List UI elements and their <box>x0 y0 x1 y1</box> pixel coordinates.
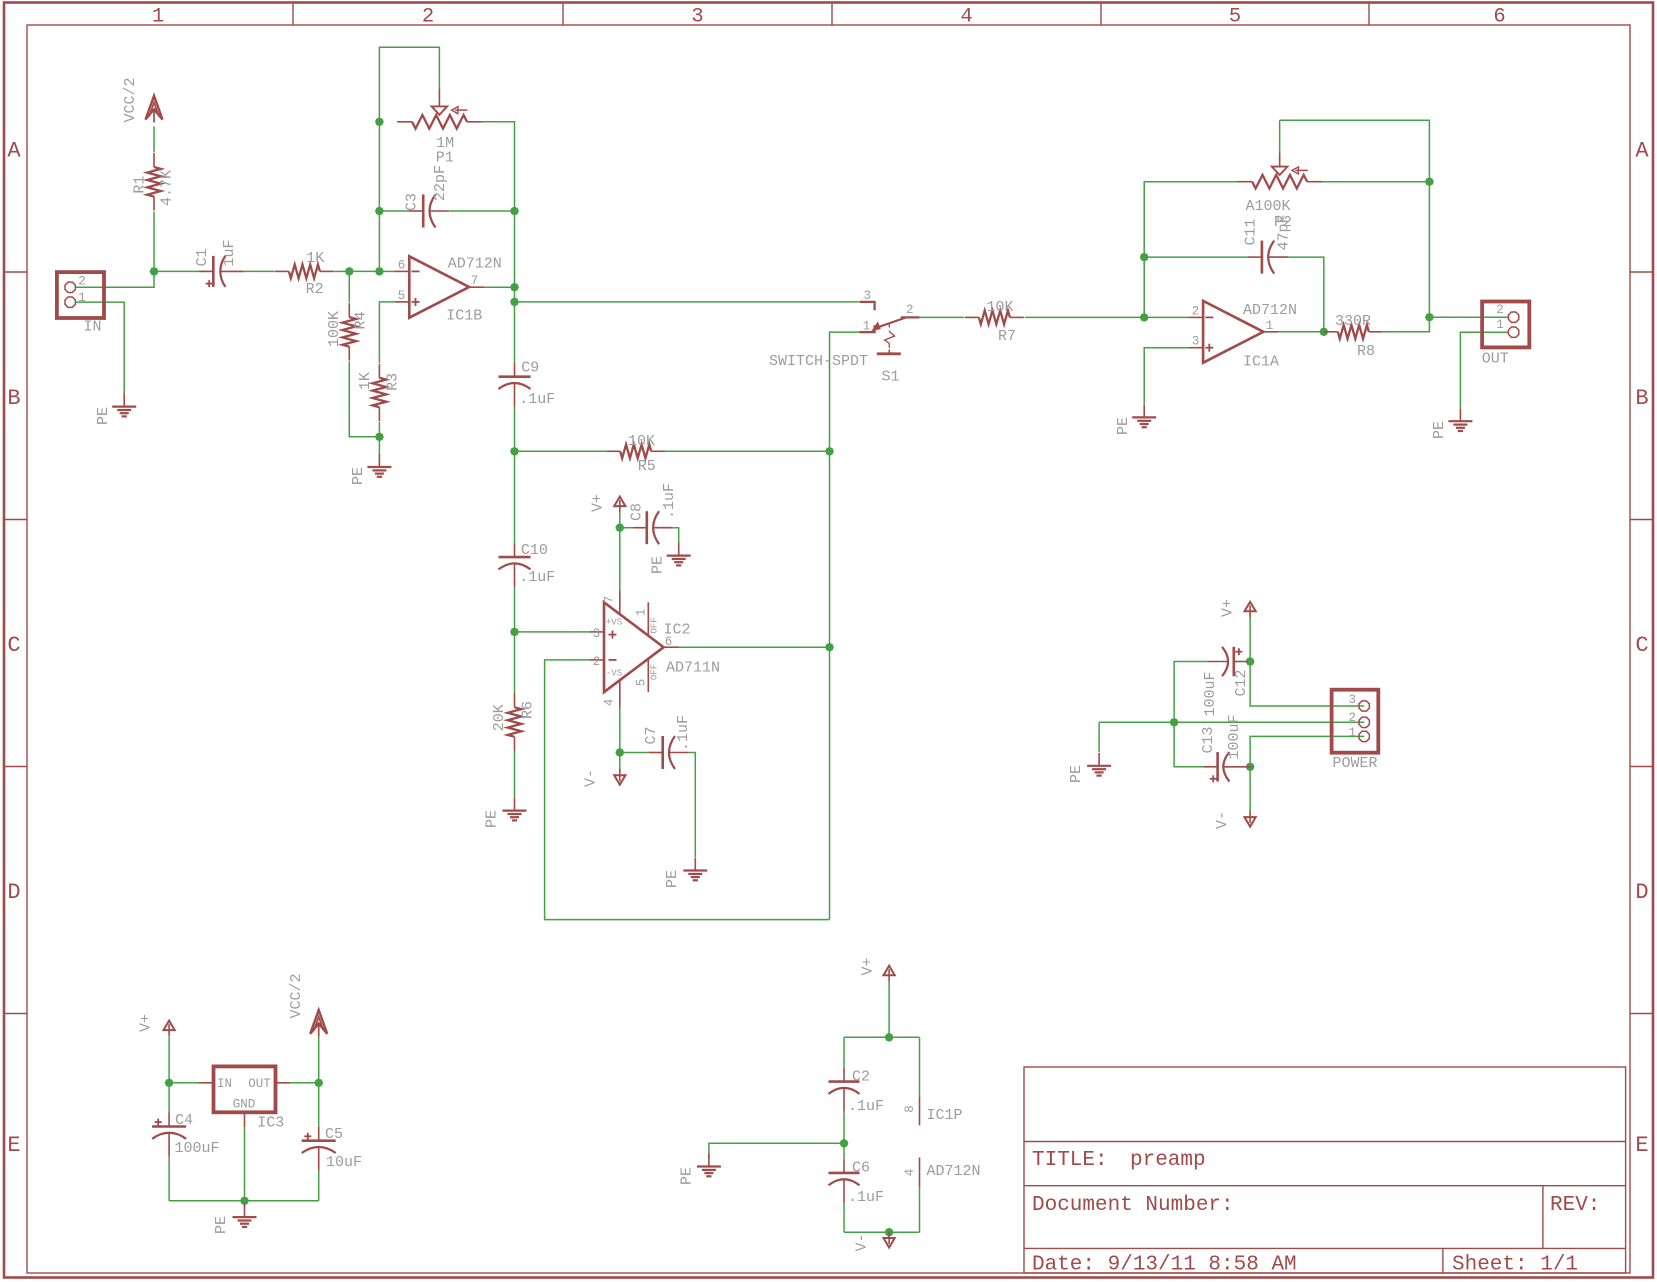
svg-text:3: 3 <box>1348 693 1356 707</box>
svg-text:IC1A: IC1A <box>1243 354 1279 371</box>
wire IC1B output to node <box>484 286 514 288</box>
switch S1 lever arrow <box>873 323 880 331</box>
supply V- at IC1P <box>884 1238 895 1248</box>
svg-text:1: 1 <box>1348 726 1356 740</box>
IC1P pin 8 <box>919 1097 921 1125</box>
svg-text:47pF: 47pF <box>1276 214 1293 250</box>
svg-text:IC2: IC2 <box>663 622 690 639</box>
trimmer P1 wiper stub <box>438 88 440 106</box>
svg-text:1K: 1K <box>357 372 374 390</box>
wire IC2 pin2 loop <box>545 660 830 920</box>
svg-text:10K: 10K <box>986 299 1013 316</box>
wire switch pin1 down right column <box>830 332 860 451</box>
wire C6 to bottom rail <box>843 1203 845 1232</box>
wire V+ to C12 node <box>1249 618 1251 662</box>
svg-text:GND: GND <box>233 1098 256 1112</box>
connector OUT pad 1 <box>1508 327 1518 337</box>
wire V- node to C7 <box>620 752 649 754</box>
svg-text:.1uF: .1uF <box>675 715 692 751</box>
supply V+ at IC2 <box>614 497 625 507</box>
capacitor C3 <box>409 210 423 212</box>
ground PE at R3 <box>378 454 380 467</box>
IC3 pin IN stub <box>199 1082 214 1084</box>
svg-text:SWITCH-SPDT: SWITCH-SPDT <box>769 353 868 370</box>
junction IN node <box>150 267 159 276</box>
trimmer P1 arrow <box>455 109 467 111</box>
svg-text:100K: 100K <box>326 311 343 347</box>
op-amp IC1A plus <box>1205 347 1213 349</box>
wire IC3 node to IC3 IN <box>169 1082 199 1084</box>
wire P1 node up and over to wiper column <box>379 47 439 122</box>
wire out node to OUT pin2 <box>1429 316 1508 318</box>
wire C8 node to C8 <box>620 527 633 529</box>
connector OUT pad 2 <box>1508 312 1518 322</box>
wire node C up to C3 node <box>378 211 380 271</box>
op-amp IC2 off pin5 <box>647 659 649 692</box>
svg-text:PE: PE <box>1431 421 1448 439</box>
svg-text:OFF: OFF <box>650 664 660 680</box>
wire R1 bottom to node A <box>153 212 155 272</box>
wire IC2 pin4 to V- node <box>619 708 621 753</box>
svg-text:R2: R2 <box>306 281 324 298</box>
wire C3 right lead to right column <box>450 210 515 212</box>
svg-text:V-: V- <box>583 769 600 787</box>
supply V+ at IC3 <box>164 1021 175 1031</box>
connector POWER pad 2 <box>1359 717 1369 727</box>
capacitor C4 <box>168 1113 170 1127</box>
svg-text:Sheet: 1/1: Sheet: 1/1 <box>1452 1254 1578 1277</box>
wire bottom rail to V- <box>888 1232 890 1237</box>
op-amp IC1A pin3 stub <box>1188 347 1203 349</box>
capacitor C1 <box>199 270 213 272</box>
svg-text:OUT: OUT <box>1482 351 1509 368</box>
svg-text:V+: V+ <box>590 494 607 512</box>
svg-text:PE: PE <box>679 1167 696 1185</box>
wire pin3 node down to R6 <box>514 632 516 694</box>
svg-text:PE: PE <box>350 467 367 485</box>
svg-text:C: C <box>7 633 20 658</box>
switch S1 pin2 <box>901 316 920 318</box>
svg-text:6: 6 <box>398 258 406 272</box>
svg-text:-VS: -VS <box>606 669 622 679</box>
svg-text:PE: PE <box>1115 417 1132 435</box>
wire node A to C1 <box>154 270 206 272</box>
wire PE drop <box>1098 722 1100 752</box>
wire IC1B pin5 to R3 column <box>379 302 394 363</box>
wire C3 left node lead <box>379 210 409 212</box>
wire R3 bottom to node D <box>378 422 380 437</box>
wire R5 to right node <box>665 450 829 452</box>
junction C12 <box>1246 657 1255 666</box>
svg-text:20K: 20K <box>491 704 508 731</box>
wire node C to IC1B pin6 <box>379 270 394 272</box>
junction OUT node <box>1425 313 1434 322</box>
svg-text:V-: V- <box>854 1233 871 1251</box>
wire right column C3 to IC1B out node <box>514 211 516 287</box>
wire R5 node down to C10 <box>514 451 516 543</box>
svg-text:C8: C8 <box>628 503 645 521</box>
resistor R6 <box>514 693 516 707</box>
svg-text:4: 4 <box>960 6 972 29</box>
svg-text:2: 2 <box>906 303 914 317</box>
capacitor C5 <box>318 1127 320 1141</box>
supply VCC/2 arrow <box>146 96 163 120</box>
svg-text:preamp: preamp <box>1130 1149 1206 1172</box>
connector OUT box <box>1482 302 1529 348</box>
wire IC1P bottom rail <box>844 1231 920 1233</box>
svg-text:REV:: REV: <box>1550 1194 1600 1217</box>
wire C12 left to mid column <box>1174 662 1208 723</box>
svg-text:P1: P1 <box>436 150 454 167</box>
svg-text:PE: PE <box>664 870 681 888</box>
junction IC1P V+ <box>885 1033 894 1042</box>
supply VCC/2 at IC3 <box>310 1010 327 1034</box>
supply V- at POWER <box>1245 817 1256 827</box>
svg-text:VCC/2: VCC/2 <box>122 77 139 122</box>
wire node B down to R4 <box>348 271 350 302</box>
svg-text:PE: PE <box>1068 765 1085 783</box>
junction R3/R4 gnd <box>375 432 384 441</box>
wire IN pin1 to ground <box>75 302 124 397</box>
wire C12 node to POWER pin3 <box>1250 662 1364 707</box>
svg-text:R1: R1 <box>132 176 149 194</box>
svg-text:PE: PE <box>95 407 112 425</box>
svg-text:3: 3 <box>593 627 601 641</box>
IC3 pin OUT stub <box>276 1082 291 1084</box>
supply V+ at IC1P <box>884 966 895 976</box>
svg-text:V+: V+ <box>860 957 877 975</box>
trimmer P1 wiper <box>432 106 448 114</box>
resistor R4 <box>348 303 350 317</box>
op-amp IC1B plus <box>412 301 420 303</box>
junction C11 tap <box>1140 253 1149 262</box>
wire P1 right lead to right column <box>482 122 514 211</box>
wire IC1P top rail <box>844 1036 920 1038</box>
wire VCC node down to C5 <box>318 1083 320 1127</box>
svg-text:IC1B: IC1B <box>446 307 482 324</box>
svg-text:PE: PE <box>484 810 501 828</box>
wire pin2 node up to C11 node <box>1143 257 1145 317</box>
svg-text:1: 1 <box>152 6 164 29</box>
svg-text:AD712N: AD712N <box>1243 302 1297 319</box>
wire top rail to pin8 <box>919 1037 921 1097</box>
frame row ticks <box>4 271 27 273</box>
wire IC3 node down to C4 <box>168 1083 170 1113</box>
svg-text:POWER: POWER <box>1332 755 1377 772</box>
svg-text:4: 4 <box>903 1169 917 1177</box>
svg-text:100uF: 100uF <box>174 1140 219 1157</box>
svg-text:VCC/2: VCC/2 <box>288 973 305 1018</box>
svg-text:C13: C13 <box>1200 726 1217 753</box>
svg-text:+VS: +VS <box>606 618 622 628</box>
wire IC1A output to R8 node <box>1278 331 1323 333</box>
trimmer P1 <box>397 121 412 123</box>
wire node B to node C <box>349 270 379 272</box>
svg-text:1K: 1K <box>306 250 324 267</box>
wire top rail to C2 <box>843 1037 845 1067</box>
junction power mid <box>1170 718 1179 727</box>
op-amp IC1B pin5 stub <box>395 301 410 303</box>
svg-text:Date: 9/13/11 8:58 AM: Date: 9/13/11 8:58 AM <box>1032 1254 1297 1277</box>
IC1P pin 4 <box>919 1158 921 1188</box>
junction C13 <box>1246 762 1255 771</box>
svg-text:1: 1 <box>1266 319 1274 333</box>
op-amp IC1A output stub <box>1263 331 1278 333</box>
junction IC1A pin2 <box>1140 313 1149 322</box>
op-amp IC1A minus <box>1205 316 1213 318</box>
capacitor C7 <box>649 752 663 754</box>
svg-text:2: 2 <box>422 6 434 29</box>
svg-text:R6: R6 <box>520 701 537 719</box>
wire R8 to out column <box>1383 317 1430 332</box>
capacitor C8 <box>633 527 647 529</box>
wire VCC/2 to VCC node <box>318 1037 320 1083</box>
svg-text:C3: C3 <box>404 193 421 211</box>
wire mid node to PE <box>709 1143 844 1158</box>
svg-text:3: 3 <box>691 6 703 29</box>
capacitor C10 <box>514 543 516 557</box>
ground PE at IC1A <box>1143 404 1145 417</box>
ground PE at IC1P <box>708 1154 710 1167</box>
wire bottom rail to ground <box>244 1201 246 1209</box>
connector IN pad 2 <box>65 282 75 292</box>
svg-text:2: 2 <box>1496 303 1504 317</box>
switch S1 pin3 <box>860 302 875 310</box>
wire P2 right lead to out column <box>1322 181 1429 183</box>
op-amp IC2 pin7 <box>619 590 621 614</box>
op-amp IC2 pin4 <box>619 680 621 707</box>
wire C10 to pin3 node <box>514 587 516 632</box>
svg-text:.1uF: .1uF <box>661 483 678 519</box>
op-amp IC1B <box>409 256 469 317</box>
wire VCC/2 to R1 top <box>153 127 155 153</box>
svg-text:C10: C10 <box>521 542 548 559</box>
svg-text:6: 6 <box>1493 6 1505 29</box>
svg-text:C1: C1 <box>194 248 211 266</box>
ground PE at IC3 <box>244 1204 246 1217</box>
wire C9 to R5 node <box>514 407 516 452</box>
capacitor C2 <box>843 1068 845 1082</box>
junction C3 left <box>375 207 384 216</box>
junction C7/V- <box>615 748 624 757</box>
svg-text:4: 4 <box>603 699 617 707</box>
wire C4 to bottom wire <box>168 1157 170 1201</box>
trimmer P2 wiper stub <box>1279 153 1281 167</box>
svg-text:V+: V+ <box>138 1014 155 1032</box>
svg-text:.1uF: .1uF <box>848 1189 884 1206</box>
svg-text:R8: R8 <box>1357 343 1375 360</box>
svg-text:Document Number:: Document Number: <box>1032 1194 1234 1217</box>
resistor R5 <box>606 450 620 452</box>
svg-text:8: 8 <box>903 1105 917 1113</box>
svg-text:A: A <box>1635 139 1649 164</box>
resistor R2 <box>275 270 289 272</box>
svg-text:5: 5 <box>398 289 406 303</box>
trimmer P2 wiper <box>1272 167 1288 175</box>
svg-text:100uF: 100uF <box>1226 714 1243 759</box>
svg-text:.1uF: .1uF <box>519 391 555 408</box>
wire C11 node up to P2 row <box>1144 182 1237 257</box>
wire IN pin2 to C1 node <box>75 271 154 287</box>
svg-text:S1: S1 <box>881 369 899 386</box>
junction IC3 in <box>165 1078 174 1087</box>
svg-text:IN: IN <box>83 319 101 336</box>
wire V- node down to V- <box>619 753 621 771</box>
wire C7 to ground drop <box>689 753 696 858</box>
resistor R3 <box>378 364 380 378</box>
svg-text:7: 7 <box>471 274 479 288</box>
svg-text:TITLE:: TITLE: <box>1032 1149 1108 1172</box>
capacitor C6 <box>843 1159 845 1173</box>
junction IC2 out <box>825 643 834 652</box>
switch S1 lever <box>877 318 906 328</box>
wire IC3 GND down <box>244 1127 246 1201</box>
junction pin5 row <box>510 298 519 307</box>
junction R8 left <box>1319 327 1328 336</box>
wire P2 wiper loop <box>1279 120 1281 152</box>
wire right column R5 to IC2 out <box>829 451 831 647</box>
svg-text:R7: R7 <box>998 328 1016 345</box>
junction P2 top <box>1425 177 1434 186</box>
svg-text:E: E <box>1635 1133 1648 1158</box>
supply V+ at POWER <box>1245 602 1256 612</box>
connector IN box <box>57 272 104 318</box>
wire C8 to ground drop <box>673 528 679 543</box>
op-amp IC1A <box>1203 301 1263 363</box>
wire C8 node down to IC2 pin7 <box>619 528 621 591</box>
wire out node down to pin5row node <box>514 287 516 302</box>
svg-text:10uF: 10uF <box>326 1154 362 1171</box>
svg-text:D: D <box>7 880 20 905</box>
svg-text:22pF: 22pF <box>432 165 449 201</box>
wire mid node to C6 <box>843 1143 845 1159</box>
svg-text:3: 3 <box>1192 335 1200 349</box>
op-amp IC1B pin6 stub <box>394 270 409 272</box>
svg-text:D: D <box>1635 880 1648 905</box>
svg-text:R5: R5 <box>638 458 656 475</box>
svg-text:2: 2 <box>593 655 601 669</box>
svg-text:V+: V+ <box>1220 599 1237 617</box>
wire C11 right to drop column <box>1288 257 1324 332</box>
junction IC1P V- <box>885 1228 894 1237</box>
connector POWER pad 3 <box>1359 701 1369 711</box>
connector POWER pad 1 <box>1359 731 1369 741</box>
wire bottom rail <box>169 1200 319 1202</box>
junction R5 left <box>510 447 519 456</box>
op-amp IC2 off pin1 <box>647 602 649 635</box>
junction R5 right <box>825 447 834 456</box>
ground PE at POWER <box>1098 753 1100 766</box>
junction C3 right <box>510 207 519 216</box>
op-amp IC2 plus <box>609 634 617 636</box>
svg-text:C2: C2 <box>852 1069 870 1086</box>
svg-text:R3: R3 <box>385 373 402 391</box>
svg-text:1: 1 <box>78 291 86 305</box>
svg-text:C7: C7 <box>643 726 660 744</box>
wire R2 to node B <box>334 270 349 272</box>
resistor R8 <box>1324 331 1338 333</box>
ground PE at IN <box>123 394 125 407</box>
junction P1 left <box>375 117 384 126</box>
svg-text:B: B <box>1635 386 1648 411</box>
svg-text:1uF: 1uF <box>221 239 238 266</box>
title block box <box>1024 1067 1626 1273</box>
svg-text:AD711N: AD711N <box>666 660 720 677</box>
svg-text:5: 5 <box>1229 6 1241 29</box>
trimmer P2 arrow <box>1296 169 1308 171</box>
svg-text:330R: 330R <box>1335 313 1371 330</box>
svg-text:E: E <box>7 1133 20 1158</box>
svg-text:2: 2 <box>1348 711 1356 725</box>
svg-text:1: 1 <box>1496 318 1504 332</box>
wire C11 node to C11 <box>1144 256 1248 258</box>
wire pin5row node to switch pin3 <box>515 301 860 303</box>
junction IC3 gnd <box>240 1196 249 1205</box>
wire C3 node up to P1 node <box>378 122 380 211</box>
svg-text:7: 7 <box>603 596 617 604</box>
wire IC1P V+ down <box>888 982 890 1038</box>
wire mid node down to C13 <box>1174 722 1208 767</box>
svg-text:C11: C11 <box>1243 218 1260 245</box>
wire node D to ground <box>378 437 380 454</box>
trimmer P2 <box>1237 181 1252 183</box>
switch S1 pin1 <box>859 325 874 332</box>
wire IC1A pin3 to ground <box>1144 348 1188 404</box>
svg-text:C9: C9 <box>521 359 539 376</box>
wire pin4 to bottom rail <box>919 1187 921 1232</box>
wire R5 node to R5 <box>515 450 607 452</box>
svg-text:A100K: A100K <box>1245 198 1290 215</box>
connector IN pad 1 <box>65 297 75 307</box>
wire PE to mid node <box>1099 721 1174 723</box>
svg-text:R4: R4 <box>353 311 370 329</box>
svg-text:5: 5 <box>635 679 649 687</box>
svg-text:A: A <box>7 139 21 164</box>
wire pin2 node to IC1A pin2 <box>1144 316 1188 318</box>
svg-text:.1uF: .1uF <box>848 1098 884 1115</box>
svg-text:OUT: OUT <box>248 1077 271 1091</box>
op-amp IC2 <box>604 602 664 692</box>
op-amp IC1B minus <box>412 270 420 272</box>
ground PE at C8 <box>678 543 680 556</box>
junction C8/V+ <box>615 523 624 532</box>
wire pin5row node down to C9 <box>514 302 516 363</box>
connector POWER box <box>1332 690 1379 753</box>
supply V- at IC2 <box>614 775 625 785</box>
svg-text:3: 3 <box>863 289 871 303</box>
svg-text:.1uF: .1uF <box>519 569 555 586</box>
svg-text:B: B <box>7 386 20 411</box>
ground PE at R6 <box>514 798 516 811</box>
svg-text:2: 2 <box>78 274 86 288</box>
switch S1 actuator <box>888 324 890 332</box>
op-amp IC2 pin2 stub <box>590 659 604 661</box>
frame column ticks top <box>292 3 294 26</box>
wire pin3 node to IC2 pin3 <box>515 631 590 633</box>
op-amp IC2 pin3 stub <box>590 631 604 633</box>
title block row lines <box>1024 1141 1626 1143</box>
ground PE at OUT <box>1459 408 1461 421</box>
junction IC1P mid <box>840 1139 849 1148</box>
wire R7 to pin2 node <box>1025 316 1145 318</box>
svg-text:100uF: 100uF <box>1202 671 1219 716</box>
svg-text:AD712N: AD712N <box>448 255 502 272</box>
junction IC1B pin6 <box>375 267 384 276</box>
wire switch pin2 to R7 <box>919 316 964 318</box>
wire C13 node to POWER pin1 <box>1250 736 1364 766</box>
svg-text:OFF: OFF <box>650 617 660 633</box>
junction IC3 out <box>314 1078 323 1087</box>
